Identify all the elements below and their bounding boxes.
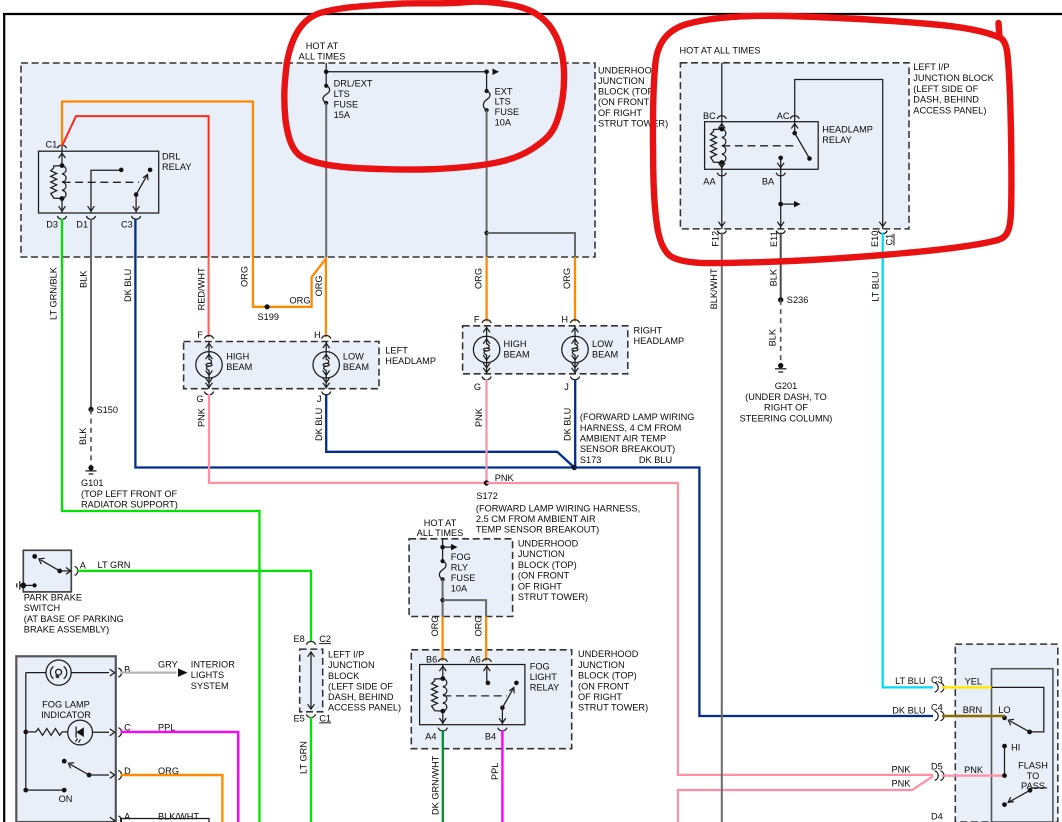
- svg-text:G: G: [474, 382, 481, 392]
- page border top: [3, 13, 1062, 15]
- svg-text:TEMP SENSOR BREAKOUT): TEMP SENSOR BREAKOUT): [476, 524, 599, 534]
- fuse DRL/EXT LTS FUSE 15A: [324, 84, 328, 88]
- wire RED from DRL relay C1: [62, 116, 209, 257]
- wire DK GRN/WHT below A4: [442, 730, 444, 822]
- headlamp switch inner box: [992, 669, 1053, 822]
- svg-text:C1: C1: [319, 713, 331, 723]
- wire AC branch: [795, 80, 883, 230]
- DRL relay switch arm: [148, 168, 153, 173]
- svg-text:JUNCTION BLOCK: JUNCTION BLOCK: [913, 73, 994, 83]
- svg-text:BLK: BLK: [78, 427, 88, 445]
- svg-text:RELAY: RELAY: [530, 683, 560, 693]
- svg-text:HOT AT ALL TIMES: HOT AT ALL TIMES: [680, 46, 761, 56]
- svg-text:FUSE: FUSE: [334, 100, 359, 110]
- wire BLK from E11 to S236: [780, 233, 782, 300]
- svg-text:ACCESS PANEL): ACCESS PANEL): [328, 702, 401, 712]
- indicator ON contact: [23, 788, 28, 793]
- red annotation circle right (around headlamp relay block): [653, 16, 1012, 263]
- svg-text:(AT BASE OF PARKING: (AT BASE OF PARKING: [24, 614, 124, 624]
- svg-text:RLY: RLY: [451, 563, 468, 573]
- svg-text:ORG: ORG: [474, 616, 484, 637]
- fog fuse output + branch: [442, 579, 444, 616]
- svg-text:DRL/EXT: DRL/EXT: [334, 79, 373, 89]
- svg-text:(FORWARD LAMP WIRING: (FORWARD LAMP WIRING: [580, 412, 695, 422]
- svg-text:PNK: PNK: [891, 778, 911, 788]
- svg-text:HARNESS, 4 CM FROM: HARNESS, 4 CM FROM: [580, 423, 681, 433]
- svg-text:BLK/WHT: BLK/WHT: [158, 812, 199, 822]
- HI contact: [1002, 744, 1007, 749]
- svg-text:2.5 CM FROM AMBIENT AIR: 2.5 CM FROM AMBIENT AIR: [476, 514, 596, 524]
- svg-text:BLOCK: BLOCK: [328, 671, 360, 681]
- svg-text:JUNCTION: JUNCTION: [578, 660, 625, 670]
- svg-text:PNK: PNK: [197, 407, 207, 427]
- red annotation circle left (around fuses): [284, 2, 564, 170]
- svg-text:LOW: LOW: [592, 339, 613, 349]
- indicator lamp: [46, 660, 71, 685]
- wire AA to F12: [721, 169, 723, 229]
- wire LT GRN from park brake to E8: [77, 571, 311, 642]
- svg-text:YEL: YEL: [965, 676, 982, 686]
- fog light relay outline: [420, 665, 525, 725]
- DRL relay D1 contact branch: [91, 170, 121, 213]
- svg-text:DK BLU: DK BLU: [563, 408, 573, 441]
- pin A + BLK/WHT: [110, 817, 115, 822]
- svg-text:RED/WHT: RED/WHT: [197, 267, 207, 310]
- svg-text:LT BLU: LT BLU: [870, 271, 880, 301]
- svg-text:(UNDER DASH, TO: (UNDER DASH, TO: [745, 392, 827, 402]
- wire ORG to A6: [485, 617, 487, 662]
- underhood junction block (fog fuse dashed box): [409, 539, 512, 617]
- svg-text:BLOCK (TOP): BLOCK (TOP): [518, 560, 577, 570]
- fog fuse feed: [442, 539, 444, 561]
- svg-text:UNDERHOOD: UNDERHOOD: [578, 649, 639, 659]
- wire DK BLU from C3: [135, 219, 572, 468]
- wire RED/WHT to left high beam F: [208, 257, 210, 337]
- park brake switch contacts: [32, 554, 37, 559]
- svg-text:DK BLU: DK BLU: [314, 408, 324, 441]
- svg-text:BA: BA: [762, 177, 775, 187]
- wire ORG to B6: [441, 617, 443, 662]
- svg-text:LEFT I/P: LEFT I/P: [913, 62, 949, 72]
- svg-text:D1: D1: [76, 219, 88, 229]
- svg-text:(FORWARD LAMP WIRING HARNESS,: (FORWARD LAMP WIRING HARNESS,: [476, 504, 640, 514]
- svg-text:HOT AT: HOT AT: [424, 518, 457, 528]
- svg-text:FOG: FOG: [451, 552, 471, 562]
- wire BLK from D1 to S150: [90, 219, 92, 410]
- DRL relay dashed link: [63, 181, 140, 183]
- splice S150: [88, 407, 93, 412]
- wire PPL from C: [121, 732, 239, 822]
- svg-text:LEFT I/P: LEFT I/P: [328, 650, 364, 660]
- svg-text:ORG: ORG: [240, 266, 250, 287]
- svg-text:BLK: BLK: [769, 268, 779, 286]
- wire LT GRN below E5: [310, 717, 312, 822]
- svg-text:LT BLU: LT BLU: [895, 676, 925, 686]
- svg-text:OF RIGHT: OF RIGHT: [578, 692, 622, 702]
- wire ORG to right H: [574, 257, 576, 322]
- svg-text:ALL TIMES: ALL TIMES: [299, 51, 346, 61]
- svg-text:ORG: ORG: [290, 296, 311, 306]
- svg-text:DK BLU: DK BLU: [892, 706, 925, 716]
- wire BA to E11 + branch arrow: [780, 169, 782, 229]
- wire EXT fuse to box bottom + branch: [486, 110, 488, 257]
- svg-text:F: F: [474, 315, 480, 325]
- svg-text:STRUT TOWER): STRUT TOWER): [598, 118, 668, 128]
- svg-text:PASS: PASS: [1021, 781, 1045, 791]
- svg-text:ACCESS PANEL): ACCESS PANEL): [913, 106, 986, 116]
- svg-text:DRL: DRL: [162, 152, 180, 162]
- svg-text:(ON FRONT: (ON FRONT: [598, 97, 650, 107]
- ground G201: [778, 363, 783, 368]
- right headlamp dashed box: [463, 326, 628, 374]
- headlamp relay switch arm: [792, 131, 797, 136]
- splice S173: [572, 465, 577, 470]
- svg-text:10A: 10A: [495, 118, 512, 128]
- svg-text:RELAY: RELAY: [822, 135, 852, 145]
- svg-text:SYSTEM: SYSTEM: [191, 681, 229, 691]
- svg-text:S173: S173: [580, 455, 602, 465]
- svg-text:FUSE: FUSE: [451, 573, 476, 583]
- wire PNK S172 to D5: [487, 483, 934, 775]
- fuse EXT LTS FUSE 10A: [486, 72, 488, 91]
- svg-text:STRUT TOWER): STRUT TOWER): [518, 592, 588, 602]
- headlamp relay dashed link: [722, 145, 798, 147]
- svg-text:BLK: BLK: [768, 328, 778, 346]
- DRL relay coil branch: [61, 146, 63, 166]
- fuse FOG RLY FUSE 10A: [441, 559, 445, 563]
- svg-text:OF RIGHT: OF RIGHT: [518, 581, 562, 591]
- flash-to-pass contact: [1032, 787, 1048, 789]
- wire PPL below B4: [501, 730, 503, 822]
- svg-text:RELAY: RELAY: [162, 162, 192, 172]
- underhood junction block (top-left dashed box): [21, 63, 595, 257]
- svg-text:H: H: [314, 330, 321, 340]
- park brake case ground: [20, 583, 26, 589]
- wire LT BLU from E10: [883, 233, 933, 688]
- svg-text:RIGHT: RIGHT: [634, 326, 663, 336]
- wire ORG from D: [121, 775, 223, 822]
- indicator resistor + LED row: [23, 730, 28, 735]
- svg-text:BEAM: BEAM: [343, 362, 369, 372]
- svg-text:HEADLAMP: HEADLAMP: [385, 356, 436, 366]
- svg-text:HOT AT: HOT AT: [306, 41, 339, 51]
- svg-text:HIGH: HIGH: [504, 339, 527, 349]
- svg-text:BLK/WHT: BLK/WHT: [709, 268, 719, 309]
- wire BLK dashed to G101: [90, 409, 92, 466]
- svg-text:OF RIGHT: OF RIGHT: [598, 108, 642, 118]
- svg-text:B4: B4: [485, 731, 496, 741]
- svg-text:S199: S199: [258, 312, 280, 322]
- headlamp switch dashed box: [955, 644, 1058, 822]
- svg-text:(ON FRONT: (ON FRONT: [578, 681, 630, 691]
- svg-text:10A: 10A: [451, 584, 468, 594]
- svg-text:LEFT: LEFT: [385, 346, 408, 356]
- park brake switch box: [23, 550, 71, 592]
- svg-text:LO: LO: [998, 705, 1010, 715]
- svg-text:(ON FRONT: (ON FRONT: [518, 571, 570, 581]
- underhood junction block (fog relay dashed box): [411, 650, 571, 749]
- svg-text:UNDERHOOD: UNDERHOOD: [518, 539, 579, 549]
- svg-text:FOG: FOG: [530, 661, 550, 671]
- svg-text:DASH, BEHIND: DASH, BEHIND: [328, 692, 394, 702]
- svg-text:BRAKE ASSEMBLY): BRAKE ASSEMBLY): [24, 625, 109, 635]
- svg-text:J: J: [564, 382, 569, 392]
- headlamp relay outline: [705, 122, 819, 170]
- svg-text:E11: E11: [769, 231, 779, 247]
- svg-text:LIGHT: LIGHT: [530, 672, 558, 682]
- svg-text:LOW: LOW: [343, 352, 364, 362]
- svg-text:C1: C1: [885, 234, 895, 246]
- svg-text:UNDERHOOD: UNDERHOOD: [598, 65, 659, 75]
- svg-text:GRY: GRY: [158, 660, 178, 670]
- svg-text:RIGHT OF: RIGHT OF: [764, 403, 808, 413]
- svg-text:G: G: [196, 394, 203, 404]
- svg-text:A: A: [124, 812, 131, 822]
- svg-text:S150: S150: [97, 405, 119, 415]
- wire from DRL fuse to box bottom: [325, 103, 327, 257]
- svg-text:EXT: EXT: [495, 86, 513, 96]
- svg-text:(TOP LEFT FRONT OF: (TOP LEFT FRONT OF: [81, 489, 178, 499]
- svg-text:BEAM: BEAM: [592, 349, 618, 359]
- svg-text:E10: E10: [870, 231, 880, 247]
- splice S236: [778, 297, 783, 302]
- svg-text:PARK BRAKE: PARK BRAKE: [24, 593, 82, 603]
- svg-text:INTERIOR: INTERIOR: [191, 660, 235, 670]
- left headlamp dashed box: [184, 342, 379, 389]
- svg-text:BC: BC: [703, 111, 716, 121]
- wire PNK second from bottom: [678, 776, 933, 822]
- headlamp relay BA branch: [778, 156, 783, 161]
- fog lamp indicator box: [16, 656, 116, 822]
- left I/P junction block (dashed box): [680, 63, 909, 229]
- wire fuse feed vertical: [325, 63, 327, 86]
- svg-text:LTS: LTS: [495, 97, 511, 107]
- fog relay coil: [432, 679, 443, 712]
- splice S172: [484, 480, 489, 485]
- svg-text:ORG: ORG: [314, 275, 324, 296]
- svg-text:HEADLAMP: HEADLAMP: [634, 336, 685, 346]
- svg-text:SWITCH: SWITCH: [24, 603, 60, 613]
- svg-text:15A: 15A: [334, 110, 351, 120]
- svg-text:PPL: PPL: [490, 763, 500, 780]
- svg-text:S172: S172: [476, 491, 498, 501]
- splice S199: [265, 304, 270, 309]
- svg-text:LT GRN: LT GRN: [98, 560, 131, 570]
- wire feed horizontal with arrow: [326, 71, 486, 73]
- wire BLK/WHT from F12: [721, 233, 723, 822]
- svg-text:B6: B6: [426, 655, 437, 665]
- svg-text:C3: C3: [121, 219, 133, 229]
- svg-text:C2: C2: [319, 634, 331, 644]
- svg-text:PNK: PNK: [891, 764, 911, 774]
- indicator switch row: [62, 759, 67, 764]
- svg-text:A6: A6: [470, 655, 481, 665]
- svg-text:A: A: [80, 561, 87, 571]
- svg-text:SENSOR BREAKOUT): SENSOR BREAKOUT): [580, 444, 675, 454]
- relay DRL (outline): [39, 151, 159, 213]
- fog relay dashed link: [443, 695, 507, 697]
- svg-text:BLOCK (TOP): BLOCK (TOP): [598, 87, 657, 97]
- svg-text:D3: D3: [46, 219, 58, 229]
- svg-text:D4: D4: [931, 812, 943, 822]
- wire ORG to right F: [485, 257, 487, 322]
- svg-text:G201: G201: [775, 381, 798, 391]
- svg-text:PNK: PNK: [964, 765, 984, 775]
- svg-text:AMBIENT AIR TEMP: AMBIENT AIR TEMP: [580, 434, 666, 444]
- svg-text:J: J: [317, 394, 322, 404]
- page border left: [3, 13, 5, 822]
- svg-text:AC: AC: [777, 111, 790, 121]
- svg-text:FLASH: FLASH: [1018, 761, 1048, 771]
- svg-text:JUNCTION: JUNCTION: [598, 76, 645, 86]
- wire BLK dashed to G201: [780, 300, 782, 364]
- svg-text:E8: E8: [294, 634, 305, 644]
- svg-text:TO: TO: [1027, 771, 1040, 781]
- wire LT GRN/BLK from D3: [62, 219, 260, 822]
- svg-text:FUSE: FUSE: [495, 107, 520, 117]
- svg-text:E5: E5: [294, 713, 305, 723]
- svg-text:(LEFT SIDE OF: (LEFT SIDE OF: [913, 84, 978, 94]
- svg-text:A4: A4: [425, 731, 436, 741]
- svg-text:DK GRN/WHT: DK GRN/WHT: [430, 755, 440, 815]
- wire DK BLU right J to S173: [574, 379, 576, 468]
- svg-text:HIGH: HIGH: [226, 352, 249, 362]
- LO contact loop: [992, 687, 1044, 732]
- svg-text:PNK: PNK: [495, 473, 515, 483]
- wire DK BLU S173 to C4: [574, 468, 933, 717]
- pins F12 E11 E10 C1: [717, 231, 726, 234]
- svg-text:C1: C1: [46, 140, 58, 150]
- indicator left rail: [25, 673, 27, 791]
- svg-text:HEADLAMP: HEADLAMP: [822, 124, 873, 134]
- svg-text:BRN: BRN: [963, 705, 982, 715]
- svg-text:ON: ON: [59, 794, 73, 804]
- svg-text:(LEFT SIDE OF: (LEFT SIDE OF: [328, 681, 393, 691]
- svg-text:LT GRN/BLK: LT GRN/BLK: [49, 266, 59, 320]
- svg-text:RADIATOR SUPPORT): RADIATOR SUPPORT): [81, 500, 178, 510]
- svg-text:INDICATOR: INDICATOR: [41, 710, 91, 720]
- svg-text:AA: AA: [703, 177, 716, 187]
- wire ORG from DRL relay C1 to S199 run: [62, 102, 326, 307]
- wire DK BLU from left J: [326, 394, 574, 468]
- svg-text:DASH, BEHIND: DASH, BEHIND: [913, 95, 979, 105]
- svg-text:F12: F12: [710, 231, 720, 247]
- fog relay switch arm: [514, 681, 519, 686]
- headlamp relay coil: [711, 129, 722, 162]
- svg-text:PNK: PNK: [474, 407, 484, 427]
- svg-text:H: H: [561, 315, 568, 325]
- svg-text:DK BLU: DK BLU: [639, 455, 672, 465]
- svg-text:STEERING COLUMN): STEERING COLUMN): [740, 413, 833, 423]
- svg-text:D5: D5: [931, 762, 943, 772]
- svg-text:ORG: ORG: [430, 616, 440, 637]
- wire BC feed: [721, 63, 723, 129]
- svg-text:STRUT TOWER): STRUT TOWER): [578, 703, 648, 713]
- svg-text:LIGHTS: LIGHTS: [191, 670, 224, 680]
- svg-text:BEAM: BEAM: [226, 362, 252, 372]
- svg-text:JUNCTION: JUNCTION: [328, 660, 375, 670]
- svg-text:FOG LAMP: FOG LAMP: [42, 699, 90, 709]
- svg-text:BLK: BLK: [79, 270, 89, 288]
- svg-text:DK BLU: DK BLU: [123, 269, 133, 302]
- svg-text:ORG: ORG: [562, 268, 572, 289]
- ground G101: [88, 465, 93, 470]
- svg-text:S236: S236: [787, 295, 809, 305]
- svg-text:LTS: LTS: [334, 89, 350, 99]
- svg-text:ORG: ORG: [474, 268, 484, 289]
- svg-text:BLOCK (TOP): BLOCK (TOP): [578, 671, 637, 681]
- svg-text:G101: G101: [81, 478, 104, 488]
- wire PNK from left G to S172 run: [209, 394, 487, 483]
- svg-text:F: F: [197, 330, 203, 340]
- svg-text:ALL TIMES: ALL TIMES: [417, 528, 464, 538]
- wire ORG fuse output to left low beam H: [325, 257, 327, 337]
- svg-text:BEAM: BEAM: [504, 349, 530, 359]
- svg-text:JUNCTION: JUNCTION: [518, 549, 565, 559]
- wire PNK right G to S172: [485, 379, 487, 483]
- svg-text:HI: HI: [1011, 743, 1020, 753]
- svg-text:LT GRN: LT GRN: [299, 741, 309, 774]
- pin B + GRY wire: [110, 669, 115, 676]
